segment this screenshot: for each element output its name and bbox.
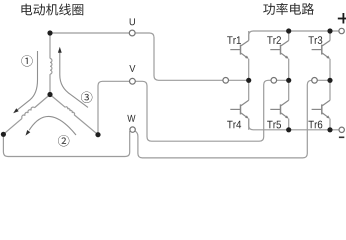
label current-1 (①): [21, 55, 32, 66]
node Tr3 collector on + rail: [327, 28, 332, 33]
transistor Tr2: [267, 31, 289, 80]
label + supply: [338, 18, 346, 20]
node motor star point: [47, 92, 52, 97]
node phase V at Tr2/Tr5: [286, 78, 291, 83]
wire W: motor lower-left terminal to Tr3/Tr6 midpoint: [3, 131, 129, 157]
node motor terminal U: [47, 30, 52, 35]
label terminal V: [129, 65, 135, 72]
wire U: motor top terminal to Tr1/Tr4 midpoint: [50, 33, 249, 80]
current arrow 3 (out of winding L1): [58, 47, 88, 108]
label current-2 (②): [58, 135, 69, 146]
terminal circle + supply: [339, 28, 344, 33]
label Tr1: [227, 36, 241, 44]
current arrow 1 (into winding L2): [13, 51, 37, 113]
terminal circle U (motor side): [129, 30, 135, 36]
current arrow 2 (winding L2 to L3 loop): [26, 116, 77, 135]
label Tr4: [227, 121, 241, 129]
terminal circle U (bridge side): [223, 78, 229, 84]
label motor-coil title (电动机线圈): [21, 4, 83, 16]
terminal circle V (bridge side): [271, 78, 277, 84]
label terminal U: [130, 18, 135, 25]
label Tr6: [308, 121, 322, 129]
winding L2 (lower-left phase-W coil): [3, 95, 50, 135]
transistor Tr3: [308, 31, 330, 80]
transistor Tr5: [267, 80, 289, 130]
label - supply: [339, 137, 344, 139]
wire V: motor lower-right terminal to Tr2/Tr5 midpoint: [98, 80, 289, 141]
wire negative DC rail: [249, 119, 339, 130]
node Tr2 collector on + rail: [286, 28, 291, 33]
winding L3 (lower-right phase-V coil): [50, 95, 98, 135]
node motor terminal W: [1, 132, 6, 137]
wire positive DC rail: [249, 31, 339, 41]
node Tr5 emitter on - rail: [286, 127, 291, 132]
terminal circle V (motor side): [130, 78, 136, 84]
node phase U at Tr1/Tr4: [246, 78, 251, 83]
label Tr3: [308, 36, 322, 44]
label current-3 (③): [81, 92, 92, 103]
terminal circle W (motor side): [130, 127, 135, 132]
terminal circle W (bridge side): [312, 78, 318, 84]
node phase W at Tr3/Tr6: [327, 78, 332, 83]
label terminal W: [127, 115, 135, 122]
terminal circle - supply: [339, 127, 344, 132]
transistor Tr1: [227, 31, 249, 80]
winding L1 (top phase-U coil): [50, 33, 52, 95]
transistor Tr4: [227, 80, 249, 130]
label Tr2: [267, 36, 281, 44]
transistor Tr6: [308, 80, 330, 130]
label power-circuit title (功率电路): [263, 3, 314, 15]
node motor terminal V: [95, 132, 100, 137]
node Tr6 emitter on - rail: [327, 127, 332, 132]
label Tr5: [267, 121, 281, 129]
